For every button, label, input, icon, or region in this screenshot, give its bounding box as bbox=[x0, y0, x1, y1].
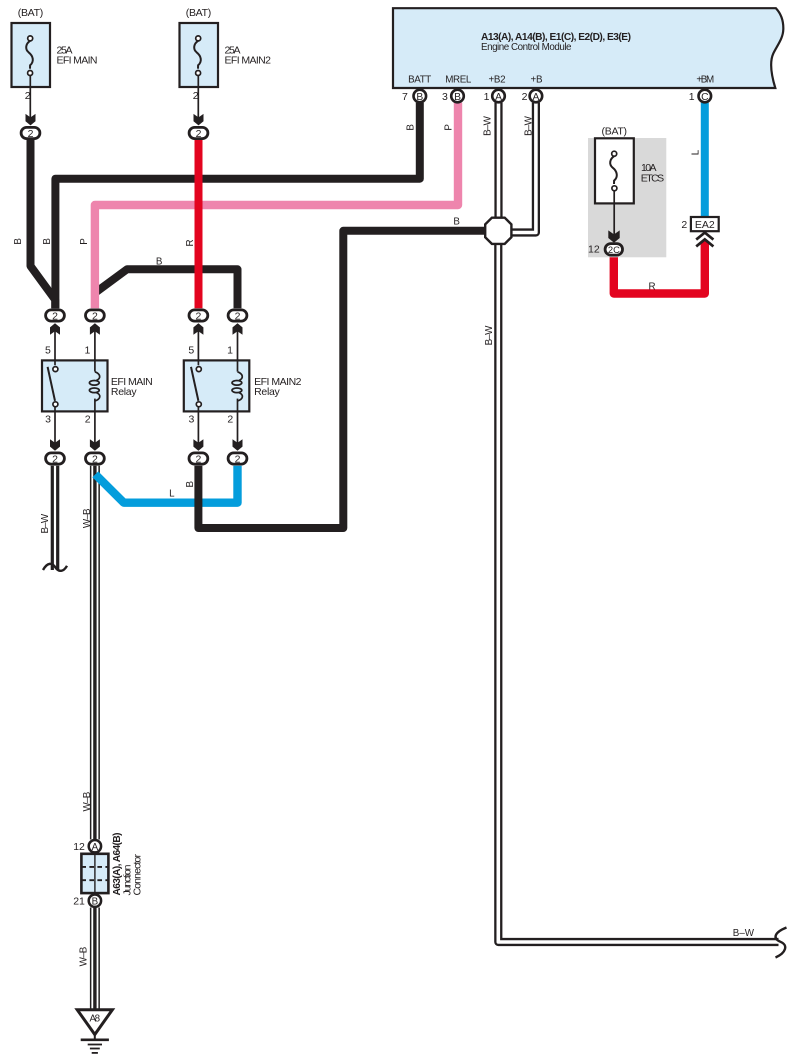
svg-text:Engine Control Module: Engine Control Module bbox=[481, 42, 572, 53]
svg-text:B–W: B–W bbox=[524, 115, 535, 135]
svg-text:B: B bbox=[406, 124, 417, 131]
svg-text:3: 3 bbox=[45, 414, 51, 426]
svg-text:Relay: Relay bbox=[254, 386, 280, 398]
ECM pin 3 connector B bbox=[442, 90, 464, 104]
svg-text:P: P bbox=[444, 124, 455, 131]
fuse F3 10A ETCS bbox=[595, 138, 634, 234]
wire B-W: junction node to bottom right bbox=[498, 242, 778, 942]
wire B: relay1 pin1 to relay2 pin1 jumper bbox=[96, 269, 238, 308]
wire P: ECM MREL to relay1 pin1 bbox=[95, 103, 458, 309]
connector EA2 bbox=[691, 217, 719, 231]
svg-text:2: 2 bbox=[52, 311, 58, 323]
svg-text:B: B bbox=[454, 92, 461, 103]
junction connector A63(A), A64(B) bbox=[81, 854, 108, 893]
svg-text:21: 21 bbox=[73, 896, 85, 908]
svg-text:2C: 2C bbox=[608, 244, 620, 255]
svg-text:5: 5 bbox=[45, 345, 51, 357]
arrow into connector relay K1 pin3 bbox=[50, 439, 60, 451]
connector 2 relay K1 pin3 bbox=[46, 453, 65, 466]
svg-text:B: B bbox=[156, 257, 163, 268]
break symbol on wire B-W relay1 pin3 bbox=[43, 564, 67, 571]
arrow into connector 2C bbox=[608, 230, 619, 242]
ECM pin 1 connector C bbox=[689, 90, 711, 104]
svg-text:2: 2 bbox=[681, 219, 687, 231]
connector 2 relay K1 pin5 bbox=[46, 310, 65, 323]
relay K1 EFI MAIN Relay bbox=[42, 331, 108, 445]
wire W-B: junction connector pin B to ground A8 bbox=[90, 908, 100, 1012]
svg-text:1: 1 bbox=[85, 345, 91, 357]
connector 2C bbox=[605, 244, 622, 256]
connector 2 below fuse F2 bbox=[189, 127, 208, 140]
break symbol on wire B-W bottom right bbox=[776, 928, 787, 958]
svg-text:L: L bbox=[690, 149, 701, 155]
svg-text:R: R bbox=[649, 281, 656, 292]
ECM A13(A), A14(B), E1(C), E2(D), E3(E) Engine Control Module bbox=[393, 8, 783, 88]
connector 2 relay K2 pin2 bbox=[228, 453, 247, 466]
wire L: ECM +BM to connector EA2 bbox=[701, 103, 709, 219]
connector 2 relay K1 pin2 bbox=[86, 453, 105, 466]
svg-text:(BAT): (BAT) bbox=[602, 125, 628, 137]
svg-text:A: A bbox=[532, 92, 539, 103]
svg-text:B: B bbox=[42, 238, 53, 245]
arrow into connector fuse F2 bbox=[194, 114, 204, 126]
relay K2 EFI MAIN2 Relay bbox=[184, 331, 250, 445]
wire W-B: relay1 pin2 to junction connector pin A bbox=[90, 466, 100, 840]
fuse F2 25A EFI MAIN2 bbox=[180, 23, 219, 118]
arrow into connector relay K1 pin2 bbox=[90, 439, 100, 451]
arrow into connector relay K2 pin1 bbox=[233, 323, 243, 335]
wire R: ETCS 2C to connector EA2 bbox=[614, 241, 705, 294]
wire B-W: ECM +B2 to junction node bbox=[494, 103, 502, 220]
chevrons into connector EA2 bbox=[696, 233, 713, 247]
svg-text:B–W: B–W bbox=[484, 325, 495, 345]
svg-text:2: 2 bbox=[235, 454, 241, 466]
label A63(A), A64(B) Junction Connector bbox=[112, 833, 144, 896]
connector 2 relay K2 pin5 bbox=[189, 310, 208, 323]
label EFI MAIN2 Relay bbox=[254, 376, 302, 398]
wire B-W: ECM +B to junction node bbox=[511, 103, 536, 233]
arrow into connector relay K1 pin5 bbox=[50, 323, 60, 335]
svg-text:2: 2 bbox=[193, 90, 199, 102]
svg-text:7: 7 bbox=[402, 91, 408, 103]
arrow into connector relay K2 pin5 bbox=[193, 323, 203, 335]
svg-text:W–B: W–B bbox=[79, 946, 90, 966]
svg-text:2: 2 bbox=[85, 414, 91, 426]
svg-text:2: 2 bbox=[196, 128, 202, 140]
svg-text:1: 1 bbox=[227, 345, 233, 357]
ECM pin 7 connector B bbox=[402, 90, 426, 104]
svg-text:EA2: EA2 bbox=[695, 219, 715, 231]
svg-text:(BAT): (BAT) bbox=[18, 7, 44, 19]
svg-text:B–W: B–W bbox=[733, 928, 755, 939]
svg-text:MREL: MREL bbox=[445, 74, 472, 85]
svg-text:1: 1 bbox=[689, 91, 695, 103]
svg-text:Relay: Relay bbox=[111, 386, 137, 398]
svg-text:2: 2 bbox=[92, 454, 98, 466]
connector 2 relay K2 pin1 bbox=[228, 310, 247, 323]
svg-text:2: 2 bbox=[92, 311, 98, 323]
svg-text:+BM: +BM bbox=[696, 74, 714, 85]
svg-text:+B: +B bbox=[530, 74, 543, 85]
svg-text:B: B bbox=[185, 480, 196, 487]
junction connector pin A bbox=[73, 840, 101, 853]
svg-text:1: 1 bbox=[484, 91, 490, 103]
svg-text:5: 5 bbox=[188, 345, 194, 357]
svg-text:EFI MAIN2: EFI MAIN2 bbox=[225, 55, 272, 67]
svg-text:B: B bbox=[416, 92, 423, 103]
svg-text:ETCS: ETCS bbox=[641, 172, 664, 184]
svg-text:BATT: BATT bbox=[408, 74, 431, 85]
arrow into connector relay K2 pin3 bbox=[193, 439, 203, 451]
svg-text:12: 12 bbox=[588, 244, 600, 256]
label EFI MAIN Relay bbox=[111, 376, 153, 398]
junction connector pin B bbox=[73, 895, 101, 908]
label 25A EFI MAIN bbox=[57, 45, 98, 67]
svg-text:2: 2 bbox=[28, 128, 34, 140]
connector 2 relay K2 pin3 bbox=[189, 453, 208, 466]
wire L: relay1 pin2 to relay2 pin2 bbox=[95, 466, 237, 503]
svg-text:+B2: +B2 bbox=[488, 74, 505, 85]
label 25A EFI MAIN2 bbox=[225, 45, 272, 67]
arrow into connector fuse F1 bbox=[26, 114, 36, 126]
connector 2 below fuse F1 bbox=[21, 127, 40, 140]
svg-text:2: 2 bbox=[52, 454, 58, 466]
svg-text:W–B: W–B bbox=[82, 508, 93, 528]
arrow into connector relay K2 pin2 bbox=[233, 439, 243, 451]
ground A8 bbox=[77, 1010, 112, 1053]
svg-text:R: R bbox=[185, 239, 196, 246]
wire B: fuse EFI MAIN to relay1 pin5 bbox=[31, 140, 56, 308]
svg-text:L: L bbox=[169, 488, 175, 499]
label 10A ETCS bbox=[641, 162, 664, 184]
svg-text:2: 2 bbox=[227, 414, 233, 426]
svg-text:C: C bbox=[701, 92, 709, 103]
ECM pin 2 connector A bbox=[522, 90, 543, 104]
ECM pin 1 connector A bbox=[484, 90, 505, 104]
svg-text:3: 3 bbox=[189, 414, 195, 426]
fuse F1 25A EFI MAIN bbox=[12, 23, 51, 118]
wire R: fuse EFI MAIN2 to relay2 pin5 bbox=[195, 140, 203, 308]
svg-text:B: B bbox=[92, 896, 99, 907]
svg-text:A: A bbox=[495, 92, 502, 103]
svg-text:2: 2 bbox=[195, 454, 201, 466]
svg-text:Connector: Connector bbox=[131, 854, 143, 896]
svg-text:3: 3 bbox=[442, 91, 448, 103]
connector 2 relay K1 pin1 bbox=[86, 310, 105, 323]
svg-text:B–W: B–W bbox=[40, 513, 51, 533]
wire B-W: relay1 pin3 stub bbox=[51, 466, 60, 570]
wire B: ECM BATT to relay1 pin5 bbox=[55, 103, 419, 309]
svg-text:B: B bbox=[13, 238, 24, 245]
svg-text:12: 12 bbox=[73, 841, 85, 853]
svg-text:2: 2 bbox=[195, 311, 201, 323]
svg-text:B: B bbox=[453, 217, 460, 228]
ETCS fuse block shading bbox=[588, 138, 666, 257]
wire B: relay2 pin3 to junction node bbox=[198, 231, 486, 528]
svg-text:2: 2 bbox=[235, 311, 241, 323]
svg-text:P: P bbox=[79, 238, 90, 245]
svg-text:B–W: B–W bbox=[483, 115, 494, 135]
svg-text:A: A bbox=[92, 842, 99, 853]
svg-text:W–B: W–B bbox=[82, 791, 93, 811]
arrow into connector relay K1 pin1 bbox=[90, 323, 100, 335]
svg-text:(BAT): (BAT) bbox=[186, 7, 212, 19]
junction node octagon bbox=[485, 218, 511, 244]
svg-text:A8: A8 bbox=[90, 1014, 101, 1025]
svg-text:EFI MAIN: EFI MAIN bbox=[57, 55, 98, 67]
svg-text:2: 2 bbox=[522, 91, 528, 103]
svg-text:2: 2 bbox=[25, 90, 31, 102]
